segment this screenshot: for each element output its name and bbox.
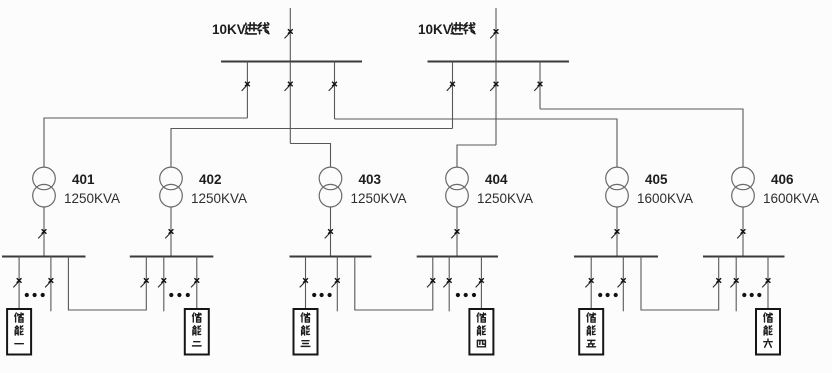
node: bus 2 more-feeders dots [169, 293, 190, 297]
load box: energy storage unit 6 (储能) [756, 309, 780, 355]
load box: energy storage unit 2 (储能) [185, 309, 209, 355]
node: bus 5 more-feeders dots [598, 293, 618, 297]
breaker: incoming line 1 [285, 29, 293, 38]
wire: bus A feeder 2 drop [289, 62, 291, 144]
transformer T406 (1600KVA) [732, 167, 755, 207]
wire: 10KV incoming line 1 [289, 8, 291, 62]
breaker: bus B feeder 1 [447, 82, 455, 91]
wire: bus A feeder 1 drop [246, 62, 248, 119]
breaker: bus 4 storage feeder [476, 278, 484, 287]
wire: bus 5 storage feeder [590, 257, 592, 310]
svg-text:1250KVA: 1250KVA [351, 191, 407, 206]
label: transformer rating 1600KVA [637, 191, 693, 206]
wire: T402 secondary drop [170, 207, 172, 256]
breaker: bus B feeder 3 [534, 82, 542, 91]
breaker: bus 5 storage feeder [585, 278, 593, 287]
bus: 400V busbar 6 [703, 256, 785, 258]
label: transformer designator 402 [199, 172, 222, 187]
transformer T402 (1250KVA) [160, 167, 183, 207]
load box: energy storage unit 3 (储能) [294, 309, 318, 355]
wire: feeder run to T402 [171, 129, 453, 168]
wire: feeder run to T401 [44, 118, 247, 167]
transformer T401 (1250KVA) [33, 167, 56, 207]
svg-text:1250KVA: 1250KVA [477, 191, 533, 206]
label: transformer rating 1600KVA [763, 191, 819, 206]
breaker: bus 3 storage feeder [300, 278, 308, 287]
breaker: tie link bus 2 side [141, 278, 149, 287]
breaker: bus 6 spare feeder [730, 278, 738, 287]
wire: bus A feeder 3 drop [334, 62, 336, 120]
wire: 10KV incoming line 2 [495, 8, 497, 62]
breaker: bus 1 storage feeder [13, 278, 21, 287]
node: bus 3 more-feeders dots [312, 293, 332, 297]
wire: T403 secondary drop [330, 207, 332, 256]
wire: feeder run to T404 [457, 145, 496, 167]
svg-text:402: 402 [199, 172, 222, 187]
label: transformer designator 403 [359, 172, 382, 187]
svg-text:1250KVA: 1250KVA [64, 191, 120, 206]
load box: energy storage unit 5 (储能) [579, 309, 603, 355]
svg-text:406: 406 [771, 172, 794, 187]
bus: 10KV busbar A [221, 61, 362, 63]
svg-text:1600KVA: 1600KVA [637, 191, 693, 206]
node: bus 6 more-feeders dots [742, 293, 761, 297]
wire: bus 4 spare feeder stub [448, 257, 450, 312]
transformer T403 (1250KVA) [319, 167, 342, 207]
breaker: bus A feeder 1 [242, 82, 250, 91]
bus: 10KV busbar B [428, 61, 570, 63]
wire: feeder run to T406 [540, 109, 743, 167]
label: transformer rating 1250KVA [477, 191, 533, 206]
wire: T406 secondary drop [742, 207, 744, 256]
breaker: bus A feeder 3 [329, 82, 337, 91]
wire: feeder run to T403 [290, 144, 330, 168]
svg-text:10KV: 10KV [418, 22, 452, 37]
wire: tie link bus 5 to bus 6 [641, 257, 719, 311]
load box: energy storage unit 1 (储能) [7, 309, 31, 355]
transformer T405 (1600KVA) [606, 167, 629, 207]
wire: bus 4 storage feeder [480, 257, 482, 310]
bus: 400V busbar 5 [574, 256, 658, 258]
bus: 400V busbar 1 [2, 256, 86, 258]
load box: energy storage unit 4 (储能) [469, 309, 493, 355]
svg-text:404: 404 [485, 172, 508, 187]
wire: tie link bus 3 to bus 4 [355, 257, 433, 311]
wire: bus 5 spare feeder stub [622, 257, 624, 312]
bus: 400V busbar 2 [130, 256, 214, 258]
breaker: bus B feeder 2 [490, 82, 498, 91]
label: transformer rating 1250KVA [64, 191, 120, 206]
label: transformer designator 404 [485, 172, 508, 187]
label: transformer designator 406 [771, 172, 794, 187]
wire: bus B feeder 3 drop [539, 62, 541, 110]
wire: feeder run to T405 [335, 119, 618, 167]
bus: 400V busbar 4 [417, 256, 498, 258]
breaker: bus 2 storage feeder [191, 278, 199, 287]
breaker: bus A feeder 2 [285, 82, 293, 91]
wire: T405 secondary drop [616, 207, 618, 256]
wire: bus 2 storage feeder [196, 257, 198, 310]
wire: bus B feeder 2 drop [495, 62, 497, 146]
label: 10KV incoming line 1 (10KV进线) [212, 22, 269, 37]
breaker: T406 low-voltage main [737, 229, 745, 238]
wire: bus 6 storage feeder [767, 257, 769, 310]
wire: tie link bus 1 to bus 2 [68, 257, 146, 311]
breaker: bus 4 spare feeder [443, 278, 451, 287]
svg-text:1250KVA: 1250KVA [191, 191, 247, 206]
breaker: incoming line 2 [490, 29, 498, 38]
svg-text:403: 403 [359, 172, 382, 187]
svg-text:10KV: 10KV [212, 22, 246, 37]
breaker: bus 1 spare feeder [45, 278, 53, 287]
breaker: bus 2 spare feeder [158, 278, 166, 287]
wire: T404 secondary drop [456, 207, 458, 256]
breaker: bus 6 storage feeder [762, 278, 770, 287]
wire: bus 2 spare feeder stub [163, 257, 165, 312]
label: transformer designator 405 [645, 172, 668, 187]
breaker: tie link bus 6 side [713, 278, 721, 287]
svg-text:405: 405 [645, 172, 668, 187]
label: 10KV incoming line 2 (10KV进线) [418, 22, 475, 37]
breaker: tie link bus 4 side [427, 278, 435, 287]
label: transformer designator 401 [72, 172, 95, 187]
breaker: T401 low-voltage main [38, 229, 46, 238]
transformer T404 (1250KVA) [446, 167, 469, 207]
wire: bus 1 spare feeder stub [50, 257, 52, 312]
breaker: T404 low-voltage main [451, 229, 459, 238]
wire: bus 6 spare feeder stub [735, 257, 737, 312]
node: bus 1 more-feeders dots [25, 293, 45, 297]
breaker: bus 3 spare feeder [332, 278, 340, 287]
wire: T401 secondary drop [43, 207, 45, 256]
breaker: T402 low-voltage main [165, 229, 173, 238]
breaker: T405 low-voltage main [611, 229, 619, 238]
breaker: bus 5 spare feeder [618, 278, 626, 287]
breaker: T403 low-voltage main [325, 229, 333, 238]
node: bus 4 more-feeders dots [456, 293, 476, 297]
label: transformer rating 1250KVA [191, 191, 247, 206]
wire: bus B feeder 1 drop [452, 62, 454, 129]
wire: bus 1 storage feeder [18, 257, 20, 310]
svg-text:401: 401 [72, 172, 95, 187]
bus: 400V busbar 3 [290, 256, 372, 258]
wire: bus 3 spare feeder stub [336, 257, 338, 312]
label: transformer rating 1250KVA [351, 191, 407, 206]
wire: bus 3 storage feeder [305, 257, 307, 310]
svg-text:1600KVA: 1600KVA [763, 191, 819, 206]
